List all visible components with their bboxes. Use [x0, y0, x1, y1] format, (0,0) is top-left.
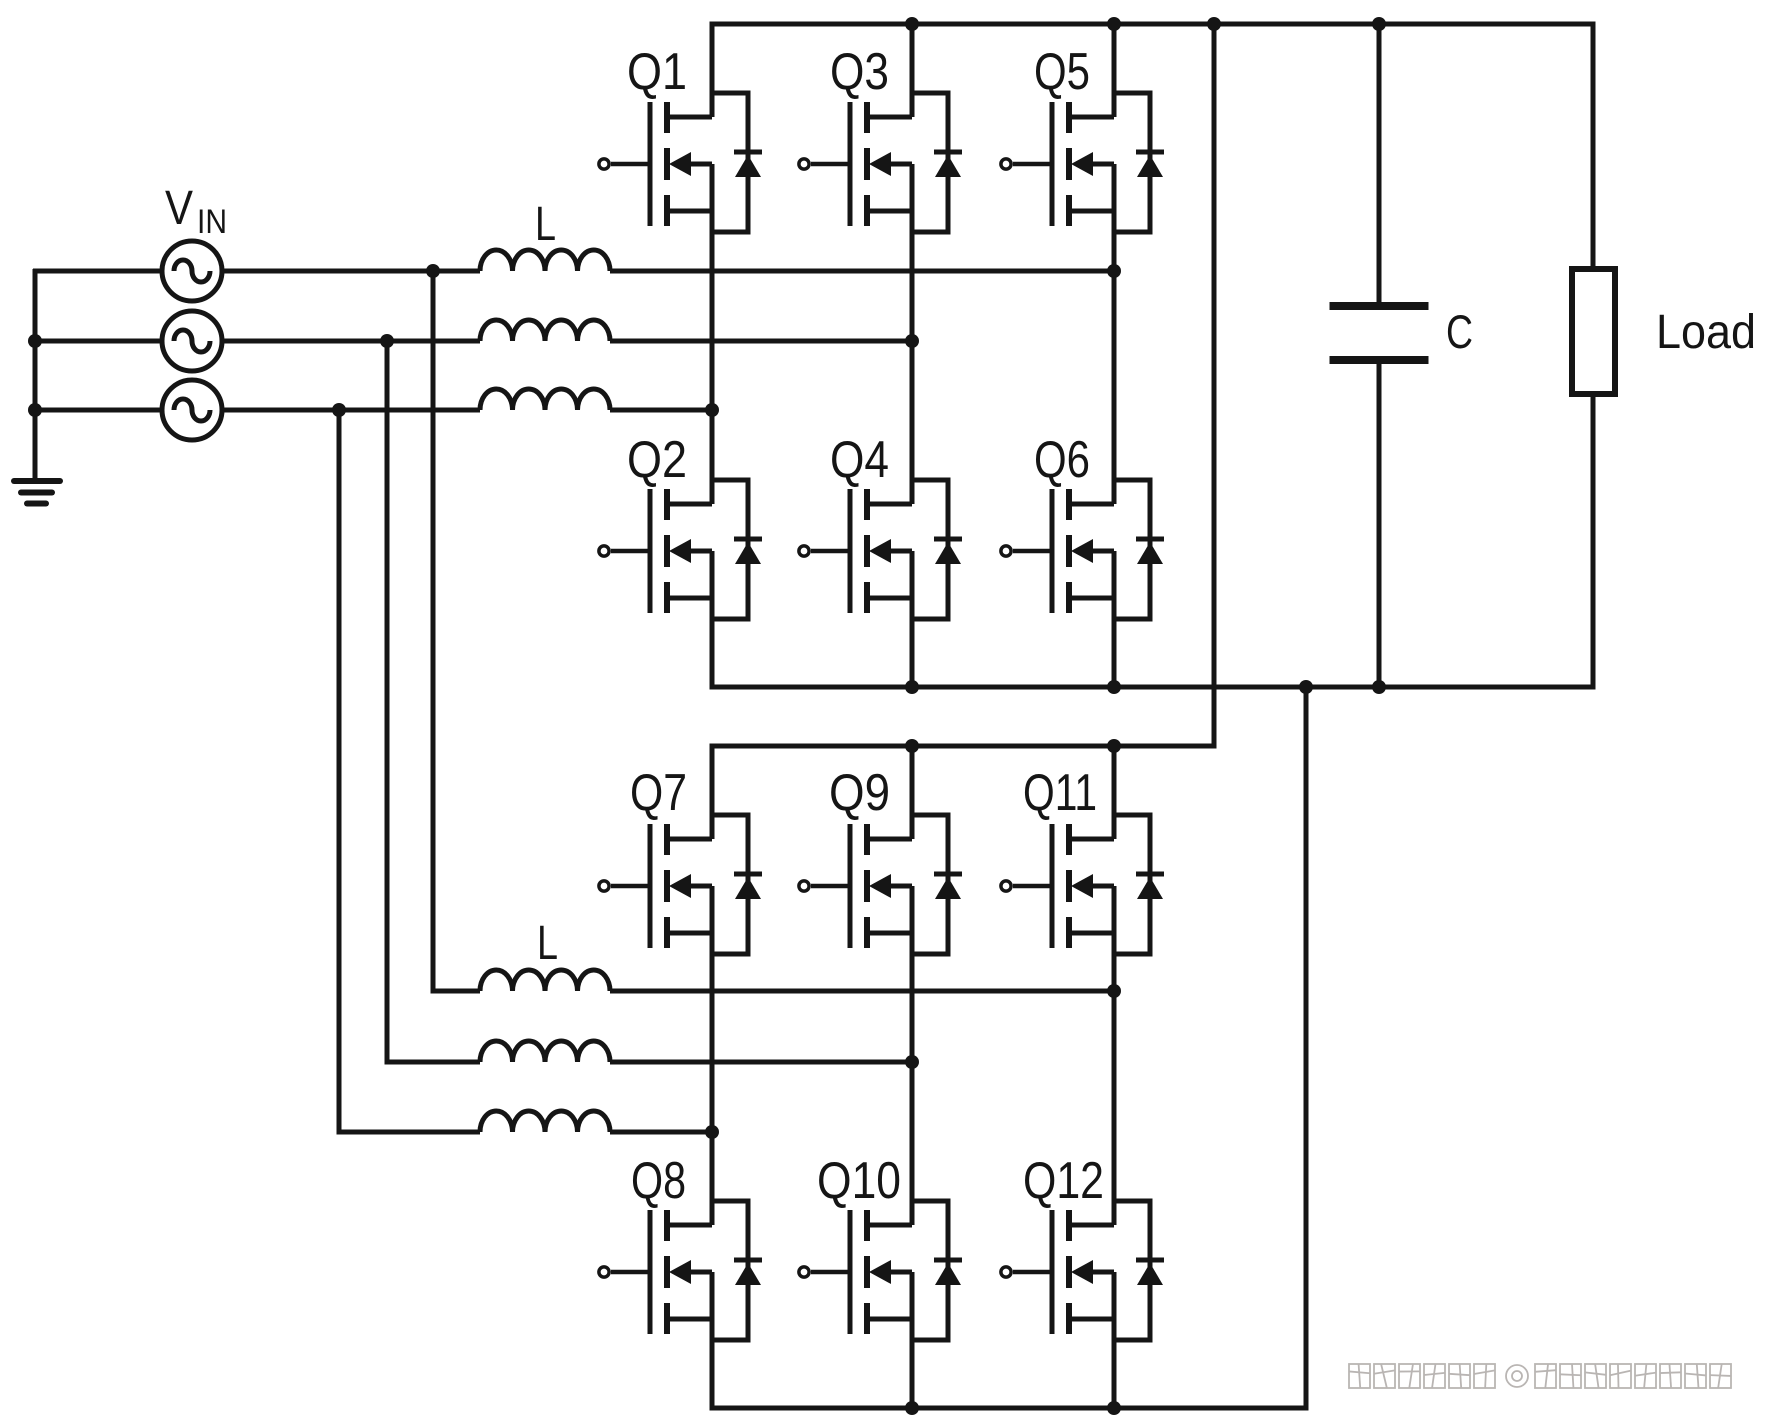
label VIN [165, 182, 227, 241]
wire lower leg2 top bus to Q9 drain [910, 746, 915, 839]
node DC+ at capacitor [1372, 17, 1386, 31]
wire capacitor top lead [1377, 24, 1382, 303]
wire DC+ link (lower bridge to top bus) [1212, 24, 1217, 744]
transistor Q12 [1001, 1210, 1114, 1334]
svg-text:Q3: Q3 [830, 43, 889, 101]
svg-text:Q10: Q10 [817, 1152, 901, 1210]
wire Q7 source to Q8 drain [710, 886, 715, 1225]
body diode of Q2 [712, 480, 762, 619]
wire phase C: bus to source [33, 408, 163, 413]
wire input neutral bus [33, 269, 38, 479]
inductor L5 [480, 1041, 610, 1062]
transistor Q8 [599, 1210, 712, 1334]
wire phase B: bus to source [33, 339, 163, 344]
wire phase A: bus to source [33, 269, 163, 274]
voltage source V2 (phase B) [162, 311, 222, 371]
wire Q1 source to Q2 drain [710, 164, 715, 504]
capacitor C [1330, 306, 1429, 360]
svg-text:Q12: Q12 [1023, 1152, 1104, 1210]
transistor Q1 [599, 102, 712, 226]
transistor Q9 [799, 824, 912, 948]
node DC+ at Q5 drain [1107, 17, 1121, 31]
transistor Q10 [799, 1210, 912, 1334]
body diode of Q4 [912, 480, 962, 619]
node DC+ at Q3 drain [905, 17, 919, 31]
svg-text:Q7: Q7 [630, 764, 687, 822]
wire phase C: inductor to Q1/Q2 midpoint [610, 408, 712, 413]
inductor L6 [480, 1111, 610, 1132]
body diode of Q5 [1114, 93, 1164, 232]
wire Q4 source to DC- bus [910, 551, 915, 687]
body diode of Q8 [712, 1201, 762, 1340]
node neutral-phase2 junction [28, 334, 42, 348]
svg-text:V: V [165, 182, 193, 235]
transistor Q2 [599, 489, 712, 613]
wire phase C: source to inductor [221, 408, 480, 413]
svg-text:Q9: Q9 [829, 764, 890, 822]
svg-text:L: L [535, 198, 556, 251]
node DC+ at lower-bridge link [1207, 17, 1221, 31]
voltage source V1 (phase A) [162, 241, 222, 301]
node neutral-phase3 junction [28, 403, 42, 417]
transistor Q6 [1001, 489, 1114, 613]
wire lower bridge top bus [710, 744, 1217, 749]
wire Q8 source to lower bottom bus [710, 1272, 715, 1408]
wire load top lead [1591, 24, 1596, 269]
transistor Q11 [1001, 824, 1114, 948]
node phase A tap [426, 264, 440, 278]
wire phase B: source to inductor [221, 339, 480, 344]
wire DC+ top bus [710, 22, 1596, 27]
svg-text:Q5: Q5 [1034, 43, 1090, 101]
transistor Q5 [1001, 102, 1114, 226]
wire Q5 source to Q6 drain [1112, 164, 1117, 504]
inductor L3 [480, 389, 610, 410]
transistor Q3 [799, 102, 912, 226]
node phase C at Q1/Q2 midpoint [705, 403, 719, 417]
wire lower phase A: inductor to Q11/Q12 midpoint [610, 989, 1114, 994]
wire leg1 top bus to Q1 drain [710, 24, 715, 117]
wire Q6 source to DC- bus [1112, 551, 1117, 687]
wire Q10 source to lower bottom bus [910, 1272, 915, 1408]
node phase B tap [380, 334, 394, 348]
svg-text:C: C [1446, 305, 1473, 358]
wire lower phase B: drop to inductor [385, 1060, 481, 1065]
wire phase B drop to lower bridge [385, 341, 390, 1062]
wire DC- mid bus [710, 685, 1596, 690]
node DC- at Q4 source [905, 680, 919, 694]
svg-text:Q6: Q6 [1034, 431, 1090, 489]
node phase C tap [332, 403, 346, 417]
svg-text:IN: IN [197, 203, 227, 241]
node phase B at Q3/Q4 midpoint [905, 334, 919, 348]
wire DC- link (lower bottom bus to mid bus) [1304, 687, 1309, 1406]
node lower bottom bus at Q10 source [905, 1401, 919, 1415]
voltage source V3 (phase C) [162, 380, 222, 440]
node DC- at lower-bridge link [1299, 680, 1313, 694]
node lower phase C at Q7/Q8 midpoint [705, 1125, 719, 1139]
body diode of Q3 [912, 93, 962, 232]
node lower phase A at Q11/Q12 midpoint [1107, 984, 1121, 998]
body diode of Q1 [712, 93, 762, 232]
body diode of Q6 [1114, 480, 1164, 619]
wire Q11 source to Q12 drain [1112, 886, 1117, 1225]
svg-text:Q1: Q1 [627, 43, 687, 101]
wire phase A: inductor to Q5/Q6 midpoint [610, 269, 1114, 274]
wire lower phase C: inductor to Q7/Q8 midpoint [610, 1130, 712, 1135]
body diode of Q7 [712, 815, 762, 954]
wire lower phase B: inductor to Q9/Q10 midpoint [610, 1060, 912, 1065]
node DC- at Q6 source [1107, 680, 1121, 694]
svg-text:L: L [537, 917, 558, 970]
wire phase C drop to lower bridge [337, 410, 342, 1132]
node lower top bus at Q9 drain [905, 739, 919, 753]
transistor Q4 [799, 489, 912, 613]
inductor L4 [480, 970, 610, 991]
svg-text:Q4: Q4 [830, 431, 889, 489]
node DC- at capacitor [1372, 680, 1386, 694]
wire lower leg1 top bus to Q7 drain [710, 746, 715, 839]
inductor L2 [480, 320, 610, 341]
body diode of Q12 [1114, 1201, 1164, 1340]
node lower bottom bus at Q12 source [1107, 1401, 1121, 1415]
svg-text:Load: Load [1656, 306, 1756, 359]
wire phase B: inductor to Q3/Q4 midpoint [610, 339, 912, 344]
wire leg2 top bus to Q3 drain [910, 24, 915, 117]
inductor L1 [480, 250, 610, 271]
watermark [1349, 1364, 1731, 1388]
wire lower phase A: drop to inductor [431, 989, 481, 994]
body diode of Q9 [912, 815, 962, 954]
svg-text:Q8: Q8 [631, 1152, 686, 1210]
svg-text:Q11: Q11 [1023, 764, 1097, 822]
node lower top bus at Q11 drain [1107, 739, 1121, 753]
wire Q12 source to lower bottom bus [1112, 1272, 1117, 1408]
body diode of Q10 [912, 1201, 962, 1340]
wire phase A drop to lower bridge [431, 271, 436, 991]
wire Q2 source to DC- bus [710, 551, 715, 687]
ground [14, 481, 60, 504]
transistor Q7 [599, 824, 712, 948]
load resistor [1572, 269, 1615, 394]
wire lower leg3 top bus to Q11 drain [1112, 746, 1117, 839]
body diode of Q11 [1114, 815, 1164, 954]
wire capacitor bottom lead [1377, 364, 1382, 687]
wire lower bridge bottom bus [710, 1406, 1309, 1411]
wire leg3 top bus to Q5 drain [1112, 24, 1117, 117]
svg-text:Q2: Q2 [627, 431, 687, 489]
wire load bottom lead [1591, 394, 1596, 687]
wire lower phase C: drop to inductor [337, 1130, 481, 1135]
node lower phase B at Q9/Q10 midpoint [905, 1055, 919, 1069]
wire Q9 source to Q10 drain [910, 886, 915, 1225]
wire phase A: source to inductor [221, 269, 480, 274]
wire Q3 source to Q4 drain [910, 164, 915, 504]
node phase A at Q5/Q6 midpoint [1107, 264, 1121, 278]
